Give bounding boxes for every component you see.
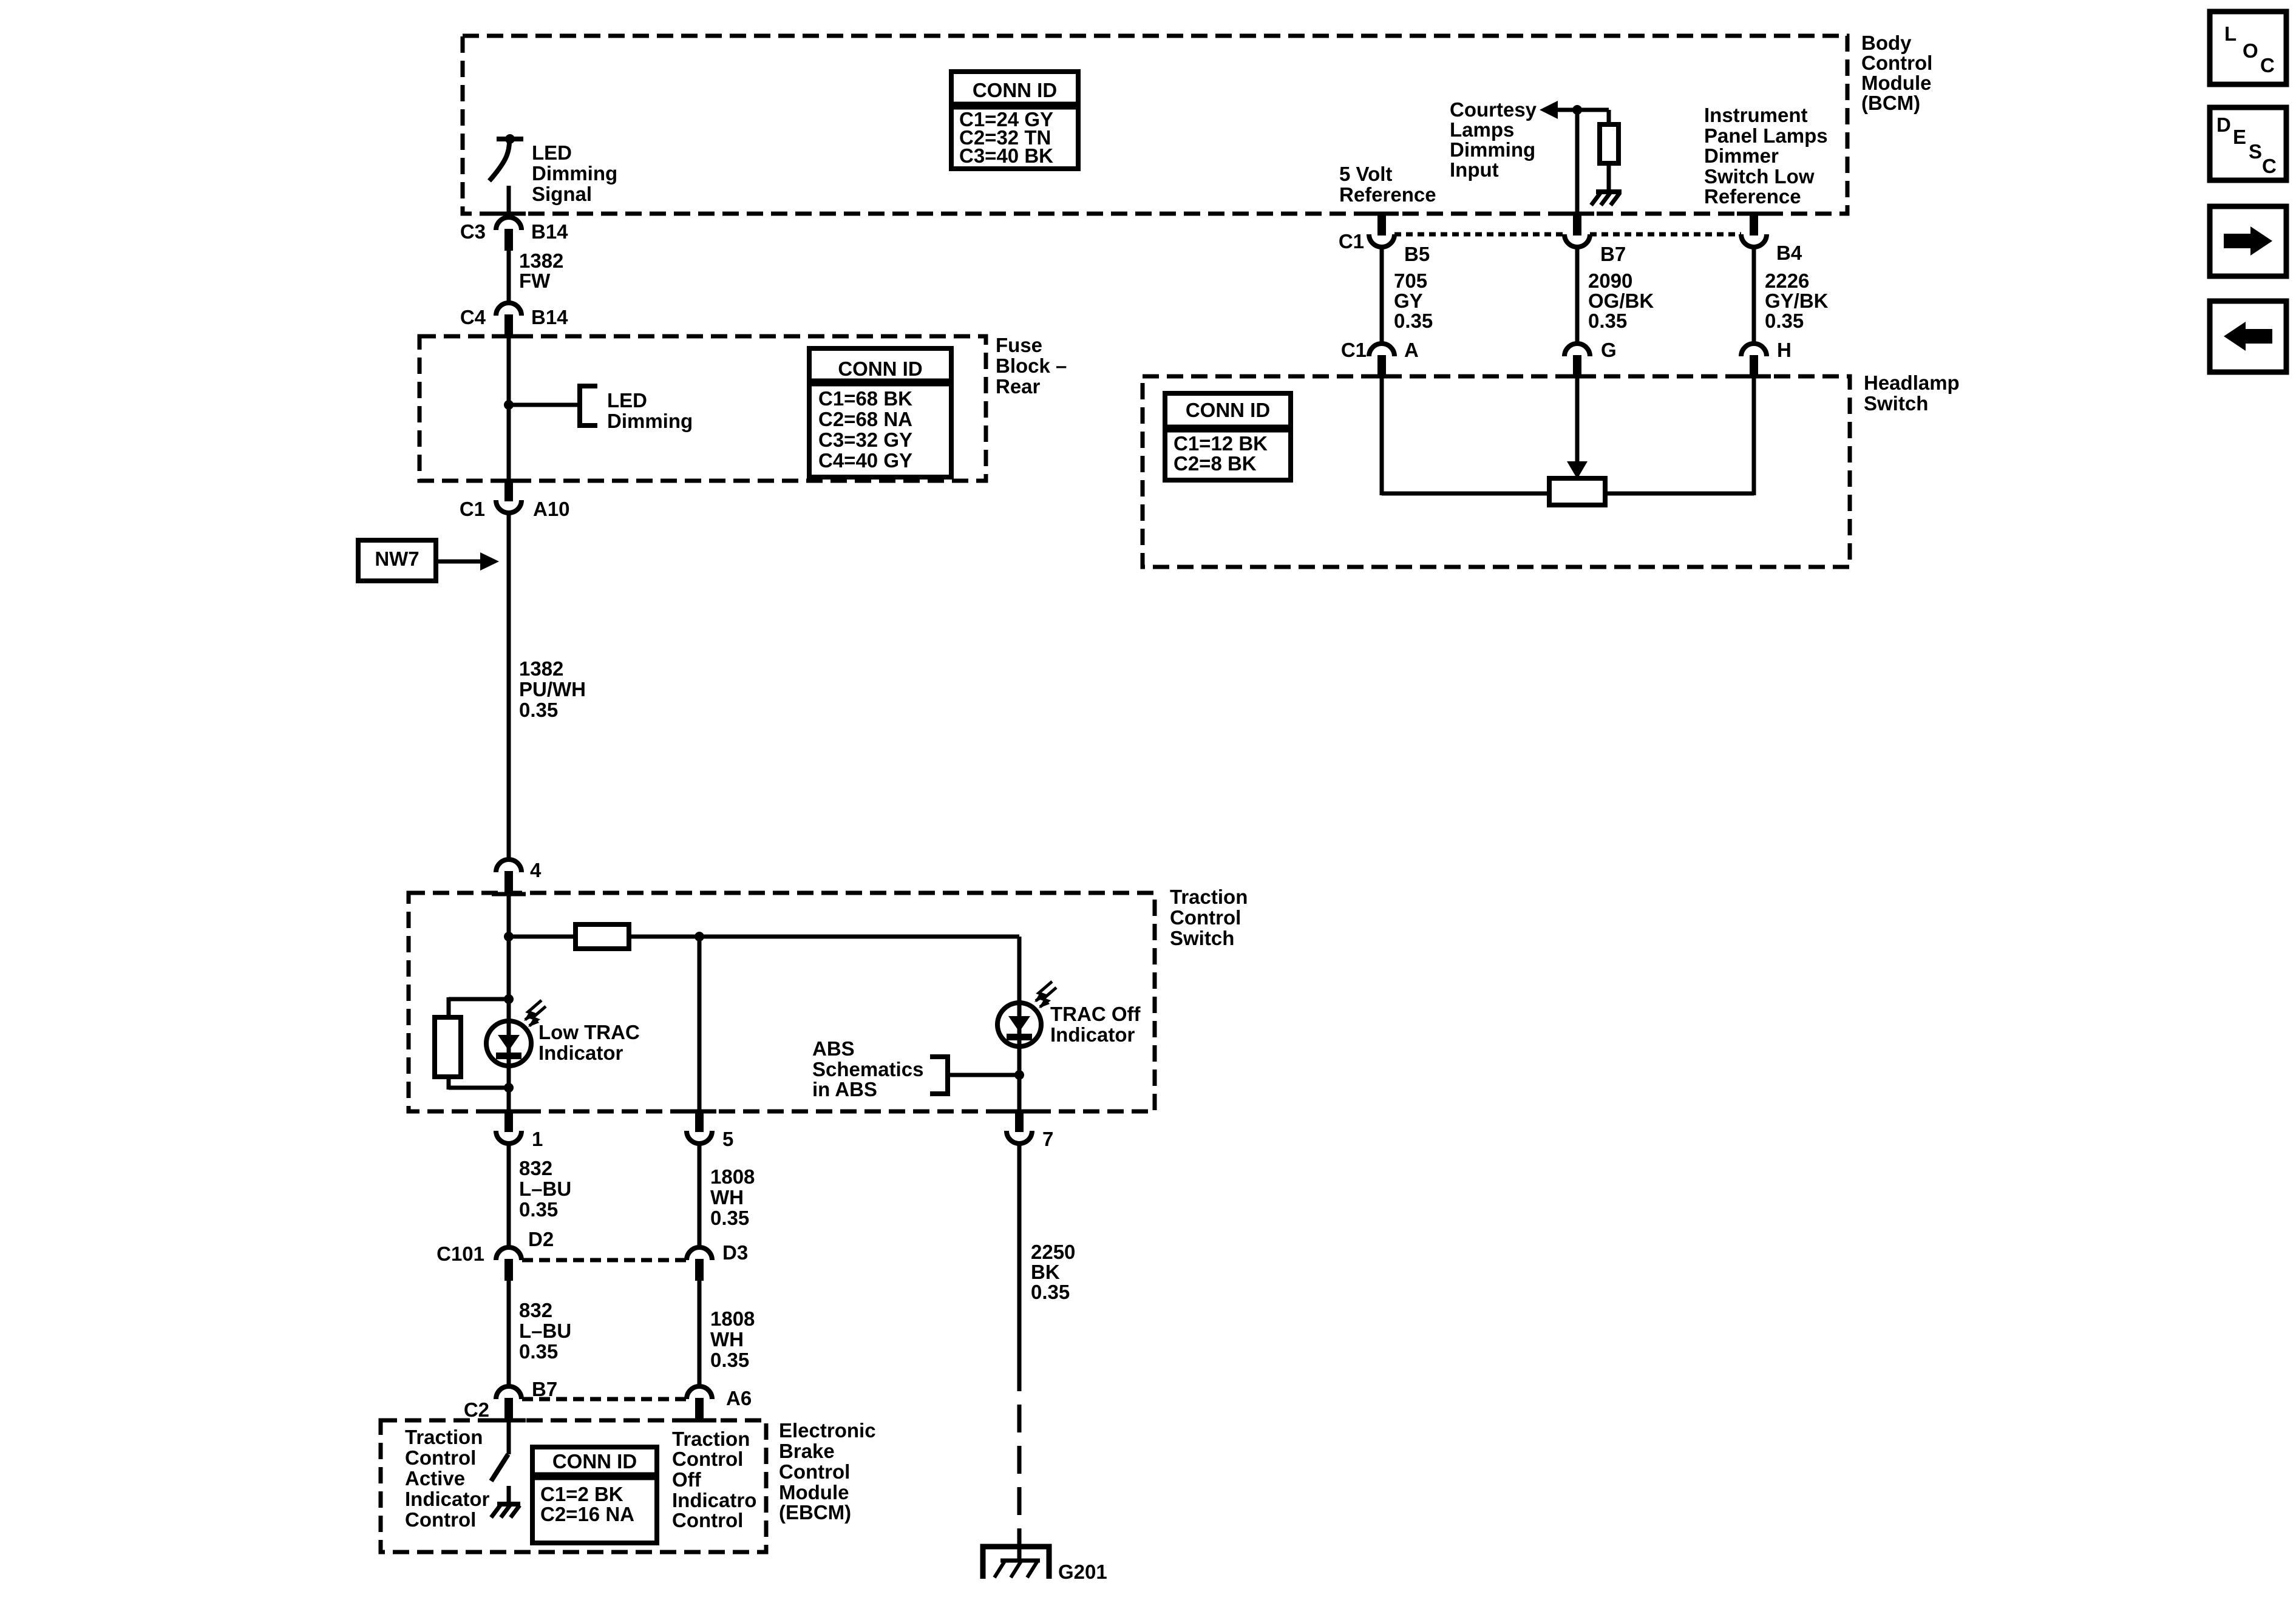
svg-text:Indicator: Indicator [538, 1042, 623, 1064]
svg-text:Brake: Brake [779, 1440, 835, 1462]
svg-text:E: E [2233, 126, 2246, 148]
svg-text:0.35: 0.35 [519, 699, 558, 721]
svg-text:832: 832 [519, 1157, 552, 1179]
svg-text:Dimming: Dimming [607, 410, 693, 432]
svg-text:C: C [2262, 155, 2277, 177]
svg-text:A10: A10 [533, 498, 570, 520]
svg-text:Control: Control [1170, 906, 1241, 929]
svg-text:1: 1 [532, 1128, 543, 1150]
svg-text:GY: GY [1394, 290, 1423, 312]
svg-text:Block –: Block – [996, 354, 1067, 377]
svg-text:4: 4 [530, 859, 542, 881]
svg-text:Control: Control [1861, 52, 1932, 74]
svg-text:2226: 2226 [1765, 269, 1809, 292]
svg-text:Control: Control [405, 1508, 476, 1531]
svg-text:5: 5 [722, 1128, 733, 1150]
svg-text:Active: Active [405, 1467, 465, 1490]
svg-text:B14: B14 [531, 220, 568, 243]
svg-text:Low TRAC: Low TRAC [538, 1021, 640, 1043]
svg-text:Dimming: Dimming [1450, 138, 1535, 161]
svg-text:G: G [1601, 339, 1617, 361]
svg-text:D3: D3 [722, 1241, 748, 1264]
svg-text:Control: Control [405, 1446, 476, 1469]
svg-text:WH: WH [710, 1186, 744, 1209]
svg-text:Traction: Traction [1170, 886, 1248, 908]
svg-text:Schematics: Schematics [812, 1058, 923, 1080]
svg-text:C2=16 NA: C2=16 NA [540, 1503, 634, 1525]
svg-text:C2=68 NA: C2=68 NA [818, 408, 912, 430]
svg-text:CONN ID: CONN ID [552, 1450, 637, 1473]
svg-text:0.35: 0.35 [710, 1349, 749, 1371]
svg-text:0.35: 0.35 [1394, 310, 1433, 332]
svg-text:Input: Input [1450, 158, 1499, 181]
svg-text:BK: BK [1031, 1261, 1060, 1283]
svg-text:Instrument: Instrument [1704, 104, 1808, 126]
svg-text:Switch: Switch [1864, 392, 1928, 415]
svg-text:1382: 1382 [519, 657, 563, 680]
svg-text:(EBCM): (EBCM) [779, 1501, 851, 1524]
svg-text:0.35: 0.35 [519, 1198, 558, 1221]
svg-text:Indicatro: Indicatro [672, 1489, 756, 1511]
svg-text:A: A [1404, 339, 1419, 361]
svg-text:Indicator: Indicator [1050, 1023, 1135, 1046]
svg-text:LED: LED [607, 389, 647, 412]
svg-text:Switch Low: Switch Low [1704, 165, 1815, 188]
svg-text:NW7: NW7 [375, 547, 419, 570]
svg-text:0.35: 0.35 [1765, 310, 1804, 332]
svg-text:C1: C1 [1341, 339, 1367, 361]
svg-text:H: H [1777, 339, 1792, 361]
svg-text:Signal: Signal [532, 183, 592, 205]
svg-text:Electronic: Electronic [779, 1419, 876, 1442]
svg-text:1808: 1808 [710, 1165, 755, 1188]
svg-text:L–BU: L–BU [519, 1178, 571, 1200]
svg-text:B7: B7 [532, 1378, 557, 1400]
svg-text:Reference: Reference [1704, 185, 1801, 208]
svg-text:Panel Lamps: Panel Lamps [1704, 124, 1828, 147]
svg-text:Dimming: Dimming [532, 162, 617, 185]
svg-text:C1=12 BK: C1=12 BK [1173, 432, 1268, 455]
svg-text:2090: 2090 [1588, 269, 1632, 292]
svg-text:CONN ID: CONN ID [838, 358, 922, 380]
svg-text:Traction: Traction [672, 1428, 750, 1450]
svg-text:G201: G201 [1058, 1561, 1107, 1583]
svg-text:0.35: 0.35 [710, 1207, 749, 1229]
svg-text:L–BU: L–BU [519, 1320, 571, 1342]
svg-text:Module: Module [779, 1481, 849, 1503]
svg-text:1808: 1808 [710, 1307, 755, 1330]
svg-text:Headlamp: Headlamp [1864, 371, 1960, 394]
svg-text:B5: B5 [1404, 243, 1430, 265]
svg-text:5 Volt: 5 Volt [1339, 163, 1392, 185]
svg-text:OG/BK: OG/BK [1588, 290, 1654, 312]
svg-text:FW: FW [519, 269, 551, 292]
svg-text:S: S [2249, 140, 2262, 163]
svg-text:Switch: Switch [1170, 927, 1234, 949]
svg-text:C2=8 BK: C2=8 BK [1173, 452, 1257, 475]
svg-text:Traction: Traction [405, 1426, 483, 1448]
svg-text:ABS: ABS [812, 1037, 855, 1060]
svg-text:LED: LED [532, 141, 572, 164]
svg-text:C1: C1 [1339, 230, 1364, 253]
svg-text:GY/BK: GY/BK [1765, 290, 1829, 312]
svg-text:B14: B14 [531, 306, 568, 328]
svg-text:CONN ID: CONN ID [973, 79, 1057, 101]
svg-text:Control: Control [779, 1460, 850, 1483]
svg-text:Indicator: Indicator [405, 1488, 490, 1510]
svg-text:7: 7 [1042, 1128, 1053, 1150]
svg-text:C3=40 BK: C3=40 BK [959, 144, 1053, 167]
svg-text:1382: 1382 [519, 249, 563, 272]
svg-text:Reference: Reference [1339, 183, 1436, 206]
svg-text:C1=2 BK: C1=2 BK [540, 1483, 623, 1505]
svg-text:832: 832 [519, 1299, 552, 1321]
svg-text:O: O [2243, 39, 2258, 62]
svg-text:C101: C101 [436, 1242, 484, 1265]
svg-text:Module: Module [1861, 72, 1931, 94]
svg-text:D: D [2216, 114, 2231, 136]
svg-text:0.35: 0.35 [1031, 1281, 1070, 1303]
svg-text:A6: A6 [726, 1387, 752, 1409]
svg-text:C1: C1 [460, 498, 485, 520]
svg-text:L: L [2224, 22, 2237, 45]
svg-text:B7: B7 [1600, 243, 1626, 265]
svg-text:2250: 2250 [1031, 1241, 1075, 1263]
svg-text:Control: Control [672, 1448, 743, 1470]
svg-text:C4: C4 [460, 306, 486, 328]
svg-text:C: C [2260, 54, 2275, 76]
svg-text:PU/WH: PU/WH [519, 678, 586, 700]
svg-text:B4: B4 [1776, 242, 1802, 264]
svg-text:Off: Off [672, 1468, 702, 1491]
svg-text:WH: WH [710, 1328, 744, 1351]
svg-text:0.35: 0.35 [519, 1340, 558, 1363]
svg-text:C3=32 GY: C3=32 GY [818, 429, 912, 451]
svg-text:C1=68 BK: C1=68 BK [818, 387, 912, 410]
svg-text:Rear: Rear [996, 375, 1041, 398]
svg-text:in ABS: in ABS [812, 1078, 877, 1100]
svg-text:Body: Body [1861, 32, 1912, 54]
svg-text:C3: C3 [460, 220, 486, 243]
svg-text:Control: Control [672, 1509, 743, 1531]
svg-text:705: 705 [1394, 269, 1427, 292]
svg-text:Dimmer: Dimmer [1704, 144, 1779, 167]
svg-text:(BCM): (BCM) [1861, 92, 1920, 114]
svg-text:Lamps: Lamps [1450, 118, 1514, 141]
svg-text:D2: D2 [528, 1228, 554, 1250]
svg-text:C4=40 GY: C4=40 GY [818, 449, 912, 472]
svg-text:0.35: 0.35 [1588, 310, 1627, 332]
svg-text:Courtesy: Courtesy [1450, 98, 1537, 121]
svg-text:CONN ID: CONN ID [1186, 399, 1270, 421]
svg-text:TRAC Off: TRAC Off [1050, 1003, 1141, 1025]
svg-text:C2: C2 [464, 1398, 489, 1421]
svg-text:Fuse: Fuse [996, 334, 1042, 356]
